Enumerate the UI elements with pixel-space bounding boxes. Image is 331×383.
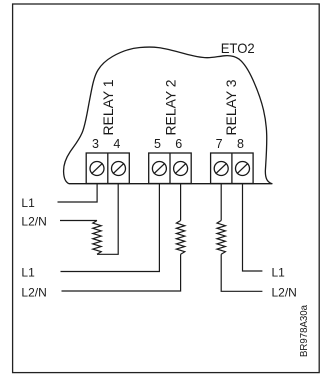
terminal 7 screw [214,162,228,176]
load resistor R2 [176,221,184,255]
svg-text:3: 3 [92,137,99,151]
load resistor R3 [217,221,225,255]
terminal 4 screw [112,162,126,176]
svg-text:L2/N: L2/N [21,215,46,229]
wire R2 bottom to lower-left L2/N [62,254,181,291]
terminal 5 screw [152,162,166,176]
wire terminal 6 down to load R2 [180,184,182,221]
terminal block relay 1 body [86,153,129,184]
svg-text:ETO2: ETO2 [221,40,255,56]
svg-text:6: 6 [175,137,182,151]
wire terminal 5 to lower-left L1 [61,184,160,272]
wire L1 upper-left to terminal 3 [58,184,98,203]
wire R1 bottom to terminal 4 [97,184,118,255]
terminal 8 screw [236,162,250,176]
terminal block relay 3 body [211,153,254,184]
svg-text:4: 4 [113,137,120,151]
svg-text:RELAY 2: RELAY 2 [163,79,179,135]
svg-text:L2/N: L2/N [272,285,297,299]
wire terminal 8 to right L1 [243,184,263,272]
svg-text:BR978A30a: BR978A30a [299,305,310,357]
ETO2 device body outline [64,47,272,184]
wire terminal 7 down to load R3 [220,184,222,221]
terminal block relay 2 body [149,153,192,184]
svg-text:L1: L1 [21,196,35,210]
wire R3 bottom to right L2/N [221,254,262,291]
terminal 3 screw [90,162,104,176]
svg-text:5: 5 [154,137,161,151]
svg-text:L2/N: L2/N [21,285,46,299]
svg-text:RELAY 1: RELAY 1 [100,79,116,135]
svg-text:L1: L1 [272,266,286,280]
svg-text:RELAY 3: RELAY 3 [223,79,239,135]
wire L2/N upper-left to load R1 [60,220,97,222]
svg-text:8: 8 [237,137,244,151]
svg-text:L1: L1 [21,266,35,280]
terminal 6 screw [174,162,188,176]
load resistor R1 [93,221,101,255]
svg-text:7: 7 [216,137,223,151]
